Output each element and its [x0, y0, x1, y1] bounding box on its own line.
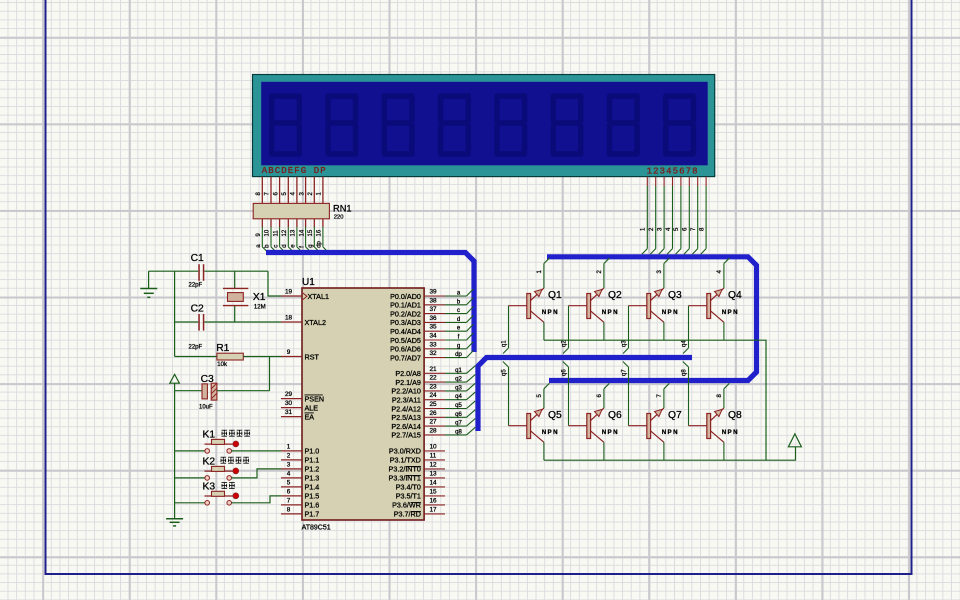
svg-text:P2.4/A12: P2.4/A12: [391, 404, 421, 413]
svg-text:9: 9: [287, 349, 291, 356]
svg-text:P3.0/RXD: P3.0/RXD: [389, 447, 421, 456]
svg-text:P2.6/A14: P2.6/A14: [391, 422, 421, 431]
svg-text:14: 14: [299, 229, 305, 236]
svg-text:2: 2: [597, 270, 603, 274]
svg-text:NPN: NPN: [542, 429, 559, 436]
svg-text:2: 2: [287, 452, 291, 459]
svg-text:26: 26: [429, 410, 437, 417]
svg-text:q6: q6: [455, 412, 462, 418]
svg-text:NPN: NPN: [602, 429, 619, 436]
svg-text:NPN: NPN: [602, 309, 619, 316]
svg-text:P0.0/AD0: P0.0/AD0: [390, 292, 421, 301]
svg-text:P1.5: P1.5: [305, 492, 320, 501]
svg-text:Q2: Q2: [608, 290, 622, 301]
svg-text:P3.5/T1: P3.5/T1: [396, 492, 421, 501]
svg-text:P1.1: P1.1: [305, 456, 320, 465]
svg-text:6: 6: [273, 192, 279, 196]
svg-text:P1.7: P1.7: [305, 510, 320, 519]
svg-text:10uF: 10uF: [199, 405, 213, 411]
svg-text:q6: q6: [562, 369, 568, 376]
svg-text:q4: q4: [455, 394, 462, 400]
svg-text:7: 7: [265, 192, 271, 196]
svg-text:U1: U1: [302, 277, 315, 288]
svg-text:24: 24: [429, 392, 437, 399]
svg-text:q2: q2: [455, 377, 462, 383]
svg-text:P2.2/A10: P2.2/A10: [391, 387, 421, 396]
svg-text:P2.3/A11: P2.3/A11: [392, 396, 421, 405]
svg-text:P0.4/AD4: P0.4/AD4: [390, 327, 421, 336]
svg-text:21: 21: [429, 366, 437, 373]
svg-text:P1.4: P1.4: [305, 483, 320, 492]
svg-text:NPN: NPN: [662, 309, 679, 316]
svg-text:NPN: NPN: [542, 309, 559, 316]
svg-text:10k: 10k: [217, 362, 228, 368]
svg-text:33: 33: [429, 341, 437, 348]
svg-text:P1.3: P1.3: [305, 474, 320, 483]
svg-text:16: 16: [429, 497, 437, 504]
svg-text:27: 27: [429, 419, 437, 426]
svg-text:q1: q1: [455, 368, 462, 374]
svg-text:16: 16: [317, 229, 323, 236]
svg-text:P1.0: P1.0: [305, 447, 320, 456]
svg-text:P0.7/AD7: P0.7/AD7: [390, 353, 421, 362]
svg-text:18: 18: [285, 315, 293, 322]
svg-text:32: 32: [429, 350, 437, 357]
svg-text:12345678: 12345678: [647, 167, 699, 177]
svg-text:f: f: [299, 246, 305, 248]
svg-text:c: c: [273, 245, 279, 248]
svg-text:Q8: Q8: [728, 410, 742, 421]
svg-text:P1.6: P1.6: [305, 501, 320, 510]
svg-text:15: 15: [308, 229, 314, 236]
svg-text:P0.2/AD2: P0.2/AD2: [390, 309, 421, 318]
svg-text:23: 23: [429, 383, 437, 390]
svg-text:Q4: Q4: [728, 290, 742, 301]
svg-text:6: 6: [597, 394, 603, 398]
svg-text:5: 5: [537, 394, 543, 398]
svg-text:17: 17: [429, 506, 437, 513]
svg-text:4: 4: [291, 192, 297, 196]
svg-text:12: 12: [282, 229, 288, 236]
svg-text:3: 3: [287, 461, 291, 468]
svg-text:3: 3: [299, 192, 305, 196]
svg-text:13: 13: [291, 229, 297, 236]
svg-text:AT89C51: AT89C51: [302, 525, 331, 532]
svg-text:P0.1/AD1: P0.1/AD1: [390, 301, 421, 310]
svg-text:22pF: 22pF: [189, 345, 203, 351]
svg-text:8: 8: [717, 394, 723, 398]
svg-text:P0.6/AD6: P0.6/AD6: [390, 345, 421, 354]
svg-text:P2.1/A9: P2.1/A9: [395, 378, 421, 387]
svg-text:R1: R1: [216, 343, 229, 354]
svg-text:c: c: [457, 308, 460, 314]
svg-text:q5: q5: [455, 403, 462, 409]
svg-text:5: 5: [287, 479, 291, 486]
svg-text:1: 1: [287, 443, 291, 450]
svg-text:NPN: NPN: [722, 429, 739, 436]
svg-text:q1: q1: [502, 340, 508, 347]
svg-text:ABCDEFG DP: ABCDEFG DP: [262, 166, 327, 176]
svg-text:9: 9: [256, 233, 262, 237]
svg-text:13: 13: [429, 470, 437, 477]
svg-text:q7: q7: [455, 421, 462, 427]
svg-text:Q1: Q1: [548, 290, 562, 301]
svg-text:34: 34: [429, 333, 437, 340]
svg-text:2: 2: [649, 227, 655, 231]
svg-text:7: 7: [657, 394, 663, 398]
svg-text:P2.7/A15: P2.7/A15: [391, 431, 421, 440]
svg-text:22pF: 22pF: [189, 283, 203, 289]
svg-text:3: 3: [657, 227, 663, 231]
svg-text:39: 39: [429, 289, 437, 296]
svg-text:P0.3/AD3: P0.3/AD3: [390, 318, 421, 327]
svg-text:4: 4: [287, 470, 291, 477]
svg-text:30: 30: [285, 400, 293, 407]
svg-text:28: 28: [429, 427, 437, 434]
svg-text:q8: q8: [455, 429, 462, 435]
svg-text:220: 220: [334, 215, 344, 221]
svg-text:XTAL1: XTAL1: [308, 292, 329, 301]
svg-text:P2.5/A13: P2.5/A13: [391, 413, 421, 422]
svg-text:29: 29: [285, 391, 293, 398]
svg-text:35: 35: [429, 324, 437, 331]
svg-text:EA: EA: [305, 412, 315, 421]
svg-text:q7: q7: [622, 369, 628, 376]
svg-text:a: a: [256, 244, 262, 248]
svg-text:NPN: NPN: [662, 429, 679, 436]
svg-text:4: 4: [666, 227, 672, 231]
svg-text:38: 38: [429, 297, 437, 304]
svg-text:RST: RST: [305, 352, 320, 361]
svg-text:8: 8: [256, 192, 262, 196]
svg-text:8: 8: [287, 506, 291, 513]
svg-text:P3.4/T0: P3.4/T0: [396, 483, 421, 492]
svg-text:q3: q3: [455, 385, 462, 391]
svg-text:C2: C2: [191, 304, 204, 315]
svg-text:19: 19: [285, 289, 293, 296]
svg-text:10: 10: [429, 443, 437, 450]
svg-text:Q3: Q3: [668, 290, 682, 301]
svg-text:d: d: [282, 244, 288, 247]
svg-text:5: 5: [282, 192, 288, 196]
svg-text:q8: q8: [682, 369, 688, 376]
svg-text:b: b: [265, 244, 271, 248]
svg-text:Q7: Q7: [668, 410, 682, 421]
svg-text:6: 6: [683, 227, 689, 231]
svg-text:6: 6: [287, 488, 291, 495]
svg-text:5: 5: [674, 227, 680, 231]
svg-text:12: 12: [429, 461, 437, 468]
svg-text:P0.5/AD5: P0.5/AD5: [390, 336, 421, 345]
svg-text:dp: dp: [317, 240, 323, 247]
svg-text:XTAL2: XTAL2: [305, 318, 326, 327]
svg-text:K1: K1: [203, 430, 216, 441]
svg-text:d: d: [457, 317, 460, 323]
svg-text:2: 2: [308, 192, 314, 196]
svg-text:12M: 12M: [254, 305, 266, 311]
svg-text:P3.1/TXD: P3.1/TXD: [390, 456, 421, 465]
svg-text:PSEN: PSEN: [305, 394, 325, 403]
svg-text:8: 8: [699, 227, 705, 231]
svg-text:37: 37: [429, 306, 437, 313]
svg-text:11: 11: [273, 230, 279, 237]
svg-text:X1: X1: [253, 292, 266, 303]
svg-text:31: 31: [285, 409, 293, 416]
svg-text:K2: K2: [203, 457, 216, 468]
svg-text:1: 1: [317, 192, 323, 196]
svg-text:36: 36: [429, 315, 437, 322]
svg-text:1: 1: [537, 270, 543, 274]
svg-text:11: 11: [430, 452, 437, 459]
svg-text:C3: C3: [201, 374, 214, 385]
svg-text:22: 22: [429, 375, 437, 382]
svg-text:P2.0/A8: P2.0/A8: [395, 369, 421, 378]
svg-text:q5: q5: [502, 369, 508, 376]
svg-text:14: 14: [429, 479, 437, 486]
svg-text:e: e: [291, 244, 297, 248]
svg-text:15: 15: [429, 488, 437, 495]
svg-text:1: 1: [641, 227, 647, 231]
svg-text:10: 10: [265, 229, 271, 236]
svg-text:Q6: Q6: [608, 410, 622, 421]
svg-text:P1.2: P1.2: [305, 465, 320, 474]
svg-text:g: g: [457, 343, 460, 349]
svg-text:25: 25: [429, 401, 437, 408]
svg-text:7: 7: [691, 227, 697, 231]
svg-text:RN1: RN1: [333, 203, 352, 213]
svg-text:ALE: ALE: [305, 403, 319, 412]
svg-text:3: 3: [657, 270, 663, 274]
svg-text:C1: C1: [191, 253, 204, 264]
svg-text:g: g: [308, 244, 314, 247]
svg-text:7: 7: [287, 497, 291, 504]
svg-text:Q5: Q5: [548, 410, 562, 421]
svg-text:4: 4: [717, 270, 723, 274]
svg-text:dp: dp: [455, 352, 462, 358]
svg-text:NPN: NPN: [722, 309, 739, 316]
svg-text:K3: K3: [203, 482, 216, 493]
